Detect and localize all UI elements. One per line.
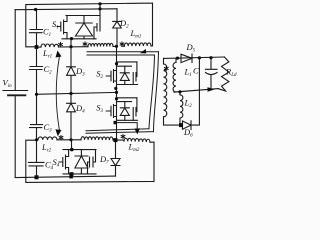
svg-text:Lr2: Lr2 — [41, 142, 52, 154]
svg-text:C: C — [193, 66, 199, 76]
svg-text:Lm2: Lm2 — [128, 142, 140, 154]
svg-text:S4: S4 — [53, 157, 60, 169]
svg-text:L2: L2 — [184, 98, 193, 110]
svg-text:D2: D2 — [119, 18, 129, 30]
svg-text:RLd: RLd — [225, 67, 237, 79]
svg-text:Vin: Vin — [3, 78, 13, 90]
svg-text:D3: D3 — [75, 66, 85, 78]
svg-text:C3: C3 — [44, 122, 53, 134]
svg-text:L1: L1 — [184, 67, 192, 79]
svg-text:D7: D7 — [99, 154, 109, 166]
svg-text:Lr1: Lr1 — [42, 48, 52, 60]
svg-text:D6: D6 — [183, 127, 193, 139]
svg-text:S3: S3 — [96, 103, 103, 115]
svg-text:D5: D5 — [186, 42, 196, 54]
svg-text:C2: C2 — [44, 64, 53, 76]
svg-text:S2: S2 — [96, 69, 103, 81]
svg-text:S1: S1 — [52, 19, 59, 31]
svg-text:D4: D4 — [75, 103, 85, 115]
svg-text:C1: C1 — [43, 27, 51, 39]
svg-text:Lm1: Lm1 — [130, 28, 142, 40]
